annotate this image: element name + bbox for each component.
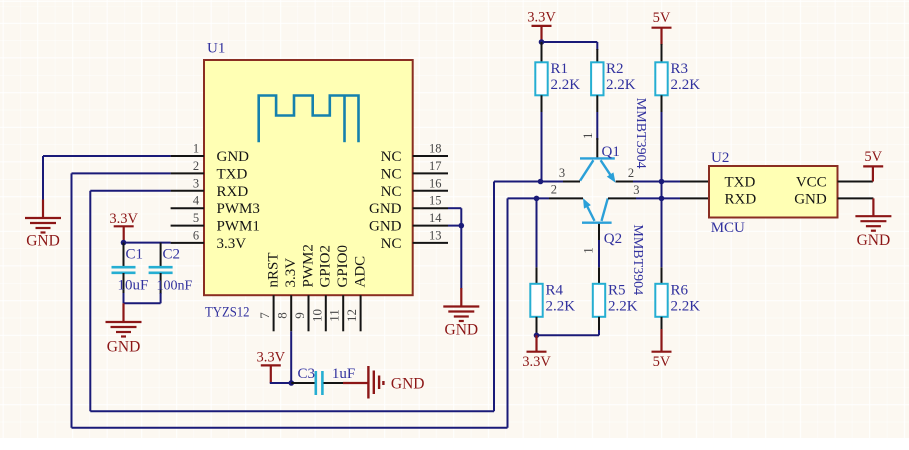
ground symbol GND mid <box>443 307 479 339</box>
svg-text:R4: R4 <box>546 283 564 299</box>
svg-text:2.2K: 2.2K <box>546 299 576 315</box>
svg-text:6: 6 <box>193 228 199 242</box>
svg-text:11: 11 <box>327 309 342 322</box>
svg-text:10uF: 10uF <box>118 278 149 294</box>
U1 pin 13 (NC) <box>381 228 448 252</box>
svg-text:18: 18 <box>429 142 442 156</box>
resistor R6 <box>655 283 700 317</box>
svg-text:1: 1 <box>581 247 596 254</box>
svg-text:U2: U2 <box>711 150 729 166</box>
node R4/R5 junction <box>534 333 540 339</box>
wire C1-C2 bottom join <box>124 293 161 303</box>
U1 pin 12 (ADC) <box>344 256 368 331</box>
power port 5V (U2) <box>863 149 883 181</box>
U2 pin GND <box>794 191 873 207</box>
capacitor C2 <box>149 243 193 294</box>
U1 pin 5 (PWM1) <box>171 211 260 235</box>
resistor R2 <box>591 49 636 95</box>
svg-text:TXD: TXD <box>725 175 756 191</box>
svg-text:NC: NC <box>381 149 402 165</box>
wire C3 to ground <box>343 382 368 384</box>
svg-text:MMBT3904: MMBT3904 <box>630 224 645 295</box>
svg-text:ADC: ADC <box>352 256 368 288</box>
svg-text:5V: 5V <box>653 10 671 26</box>
svg-text:3.3V: 3.3V <box>109 211 138 227</box>
svg-text:7: 7 <box>257 312 272 319</box>
svg-text:GND: GND <box>217 149 250 165</box>
value label TYZS12 <box>205 305 250 321</box>
svg-text:GPIO0: GPIO0 <box>335 245 351 288</box>
svg-text:3.3V: 3.3V <box>527 10 556 26</box>
capacitor C3 <box>291 366 355 395</box>
svg-text:13: 13 <box>429 228 442 242</box>
svg-text:2.2K: 2.2K <box>671 299 701 315</box>
svg-text:5V: 5V <box>653 354 671 370</box>
U1 pin 1 (GND) <box>171 142 250 166</box>
svg-text:4: 4 <box>193 194 200 208</box>
power port 3.3V (C3) <box>256 350 285 383</box>
wire R4 bottom <box>536 317 538 336</box>
U1 pin 14 (GND) <box>369 211 448 235</box>
svg-text:2: 2 <box>551 183 557 197</box>
U1 pin 2 (TXD) <box>171 159 248 183</box>
node pin14 junction <box>459 223 465 229</box>
U1 pin 18 (NC) <box>381 142 448 166</box>
node 3.3V/R1/R2 junction <box>539 39 545 45</box>
svg-text:RXD: RXD <box>725 191 757 207</box>
wire pin1 GND net <box>43 156 171 201</box>
value label MCU <box>711 220 745 236</box>
power port 5V (top) <box>652 10 672 45</box>
power ground stub <box>42 200 44 219</box>
resistor R3 <box>655 44 700 95</box>
wire row2 right <box>636 197 709 199</box>
svg-text:R3: R3 <box>671 61 689 77</box>
power ground stub C1 <box>122 303 124 322</box>
node C3 junction <box>289 380 295 386</box>
svg-text:3.3V: 3.3V <box>522 354 551 370</box>
svg-text:GND: GND <box>26 233 60 250</box>
power ground stub mid <box>460 288 462 307</box>
ground symbol GND right of C3 (rotated) <box>368 366 424 399</box>
power port 3.3V (left) <box>109 211 138 243</box>
svg-text:MMBT3904: MMBT3904 <box>633 98 648 169</box>
power port 3.3V (top) <box>527 10 556 42</box>
designator U1 <box>207 41 225 57</box>
U1 pin 17 (NC) <box>381 159 448 183</box>
svg-text:3: 3 <box>559 166 565 180</box>
svg-text:TXD: TXD <box>217 166 248 182</box>
svg-text:GND: GND <box>857 232 891 249</box>
wire R2 to Q1 base <box>596 95 598 140</box>
ground symbol GND under C1 <box>106 322 142 356</box>
wire R4-R5 bottom join <box>537 317 600 336</box>
svg-text:PWM1: PWM1 <box>217 219 260 235</box>
wire TXD net (pin2 to Q2) <box>72 173 550 427</box>
wire 3.3V to pin6 <box>124 242 171 244</box>
U1 pin 15 (GND) <box>369 194 448 218</box>
U1 pin 7 (nRST) <box>257 252 281 331</box>
svg-text:PWM2: PWM2 <box>300 244 316 287</box>
svg-text:3: 3 <box>633 183 639 197</box>
svg-text:12: 12 <box>344 309 359 322</box>
svg-text:1uF: 1uF <box>332 366 355 382</box>
node C1 top junction <box>121 240 127 246</box>
svg-text:TYZS12: TYZS12 <box>205 305 250 321</box>
svg-text:Q1: Q1 <box>602 144 620 160</box>
node row1/R1 junction <box>538 179 544 185</box>
svg-text:R2: R2 <box>606 61 624 77</box>
svg-text:1: 1 <box>580 133 595 140</box>
node row2/R6 junction <box>659 196 665 202</box>
svg-text:GND: GND <box>391 376 425 393</box>
svg-text:17: 17 <box>429 159 442 173</box>
wire row2 to R4 <box>536 198 538 283</box>
designator U2 <box>711 150 729 166</box>
node row1/R3 junction <box>659 179 665 185</box>
ground symbol GND left <box>25 218 61 250</box>
svg-text:10: 10 <box>309 309 324 322</box>
svg-text:C2: C2 <box>163 247 181 263</box>
svg-text:R1: R1 <box>551 61 569 77</box>
svg-text:R5: R5 <box>608 283 626 299</box>
svg-text:Q2: Q2 <box>604 231 622 247</box>
wire 3.3V to C3 <box>270 382 292 384</box>
wire R6 bottom <box>661 317 663 330</box>
U1 pin 11 (GPIO0) <box>327 245 351 331</box>
power port 5V (bottom) <box>652 329 672 370</box>
power port 3.3V (bottom) <box>522 335 551 370</box>
svg-text:5: 5 <box>193 211 199 225</box>
U1 pin 4 (PWM3) <box>171 194 260 218</box>
svg-text:GPIO2: GPIO2 <box>318 245 334 288</box>
U1 pin 9 (PWM2) <box>292 244 316 331</box>
svg-text:5V: 5V <box>864 149 882 165</box>
svg-text:2: 2 <box>193 159 199 173</box>
svg-text:14: 14 <box>429 211 442 225</box>
U1 pin 6 (3.3V) <box>171 228 247 252</box>
capacitor C1 <box>112 243 149 294</box>
transistor Q2 MMBT3904 <box>549 183 645 296</box>
U1 pin 8 (3.3V) <box>275 258 299 332</box>
resistor R5 <box>593 283 638 317</box>
svg-text:R6: R6 <box>671 283 689 299</box>
wire pin8 down <box>290 331 292 383</box>
svg-text:C3: C3 <box>298 366 316 382</box>
svg-text:GND: GND <box>794 191 827 207</box>
svg-text:NC: NC <box>381 236 402 252</box>
power ground stub U2 <box>872 198 874 216</box>
wire R3 to R6 vertical <box>661 95 663 283</box>
U1 pin 16 (NC) <box>381 176 448 200</box>
wire row1 right <box>633 181 709 183</box>
svg-text:2.2K: 2.2K <box>606 77 636 93</box>
IC U1 TYZS12 module body <box>204 60 413 295</box>
svg-text:NC: NC <box>381 166 402 182</box>
svg-text:U1: U1 <box>207 41 225 57</box>
svg-text:3.3V: 3.3V <box>256 350 285 366</box>
svg-text:nRST: nRST <box>265 252 281 287</box>
svg-text:100nF: 100nF <box>157 279 193 294</box>
svg-text:PWM3: PWM3 <box>217 201 260 217</box>
IC U2 MCU body <box>709 166 838 218</box>
wire RXD net (pin3 to Q1) <box>90 182 563 412</box>
svg-text:MCU: MCU <box>711 220 745 236</box>
svg-text:3.3V: 3.3V <box>283 258 299 288</box>
svg-text:GND: GND <box>445 322 479 339</box>
resistor R1 <box>535 42 580 95</box>
U1 pin 10 (GPIO2) <box>309 245 333 331</box>
svg-text:C1: C1 <box>126 247 144 263</box>
antenna symbol inside U1 <box>259 96 359 143</box>
node row2/R4 junction <box>534 196 540 202</box>
svg-text:2.2K: 2.2K <box>671 77 701 93</box>
svg-text:3: 3 <box>193 176 199 190</box>
wire pin15 to pin14 GND net <box>448 208 461 288</box>
svg-text:VCC: VCC <box>796 175 827 191</box>
svg-text:GND: GND <box>107 339 141 356</box>
wire R1 to row1 <box>541 95 543 181</box>
wire Q2 base to R5 <box>598 240 600 284</box>
svg-text:3.3V: 3.3V <box>217 236 247 252</box>
U2 pin TXD <box>725 175 756 191</box>
svg-text:GND: GND <box>369 201 402 217</box>
svg-text:1: 1 <box>193 142 199 156</box>
transistor Q1 MMBT3904 <box>559 98 648 182</box>
ground symbol GND U2 <box>855 216 891 249</box>
svg-text:8: 8 <box>275 312 290 319</box>
svg-text:9: 9 <box>292 312 307 319</box>
U2 pin RXD <box>725 191 757 207</box>
wire pin14 to junction <box>448 225 461 227</box>
svg-text:RXD: RXD <box>217 184 249 200</box>
svg-text:GND: GND <box>369 219 402 235</box>
wire 3.3V to R2 <box>542 42 598 50</box>
resistor R4 <box>530 283 575 317</box>
svg-text:16: 16 <box>429 176 442 190</box>
svg-text:15: 15 <box>429 194 442 208</box>
svg-text:2.2K: 2.2K <box>551 77 581 93</box>
svg-text:NC: NC <box>381 184 402 200</box>
U2 pin VCC <box>796 175 873 191</box>
svg-text:2.2K: 2.2K <box>608 299 638 315</box>
U1 pin 3 (RXD) <box>171 176 249 200</box>
